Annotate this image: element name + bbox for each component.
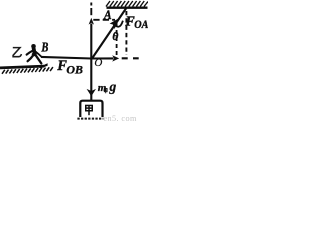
svg-text:B: B [41, 39, 49, 54]
甲 glyph inside box [86, 105, 93, 115]
dashed vertical from A down to arrow tip [116, 23, 118, 56]
dashed horizontal continuation right [122, 57, 139, 59]
ground line (left) [0, 66, 44, 68]
svg-text:A: A [103, 8, 112, 22]
ceiling line [107, 6, 148, 8]
ceiling hatching [106, 1, 148, 7]
arrowhead down (weight) [87, 89, 96, 96]
svg-text:OB: OB [66, 62, 83, 76]
vertical dashes above arrow [90, 3, 92, 6]
wire: rope O to ceiling [92, 8, 126, 59]
box dotted bottom [77, 118, 103, 120]
label 乙 [13, 48, 22, 57]
svg-text:g: g [109, 79, 117, 94]
horizontal component arrow from O [92, 57, 114, 59]
svg-text:OA: OA [134, 19, 148, 31]
wire: rope person B to O [41, 57, 92, 59]
box (object 甲) [80, 101, 102, 117]
vertical line above O (solid) [90, 24, 92, 59]
angle theta arc [114, 21, 123, 27]
arrowhead on rope at A (force F_OA) [110, 19, 119, 30]
svg-text:en5. com: en5. com [104, 114, 137, 123]
ground hatching [2, 67, 53, 74]
dashed horizontal at A level [93, 19, 115, 21]
dashed vertical from ceiling attach [125, 11, 127, 55]
ground line end wedge [39, 63, 48, 68]
wire: rope O down to box [90, 59, 92, 101]
svg-text:θ: θ [112, 31, 118, 43]
person pulling rope [27, 44, 42, 63]
arrowhead up (vertical component) [89, 18, 94, 25]
svg-text:O: O [94, 57, 102, 69]
